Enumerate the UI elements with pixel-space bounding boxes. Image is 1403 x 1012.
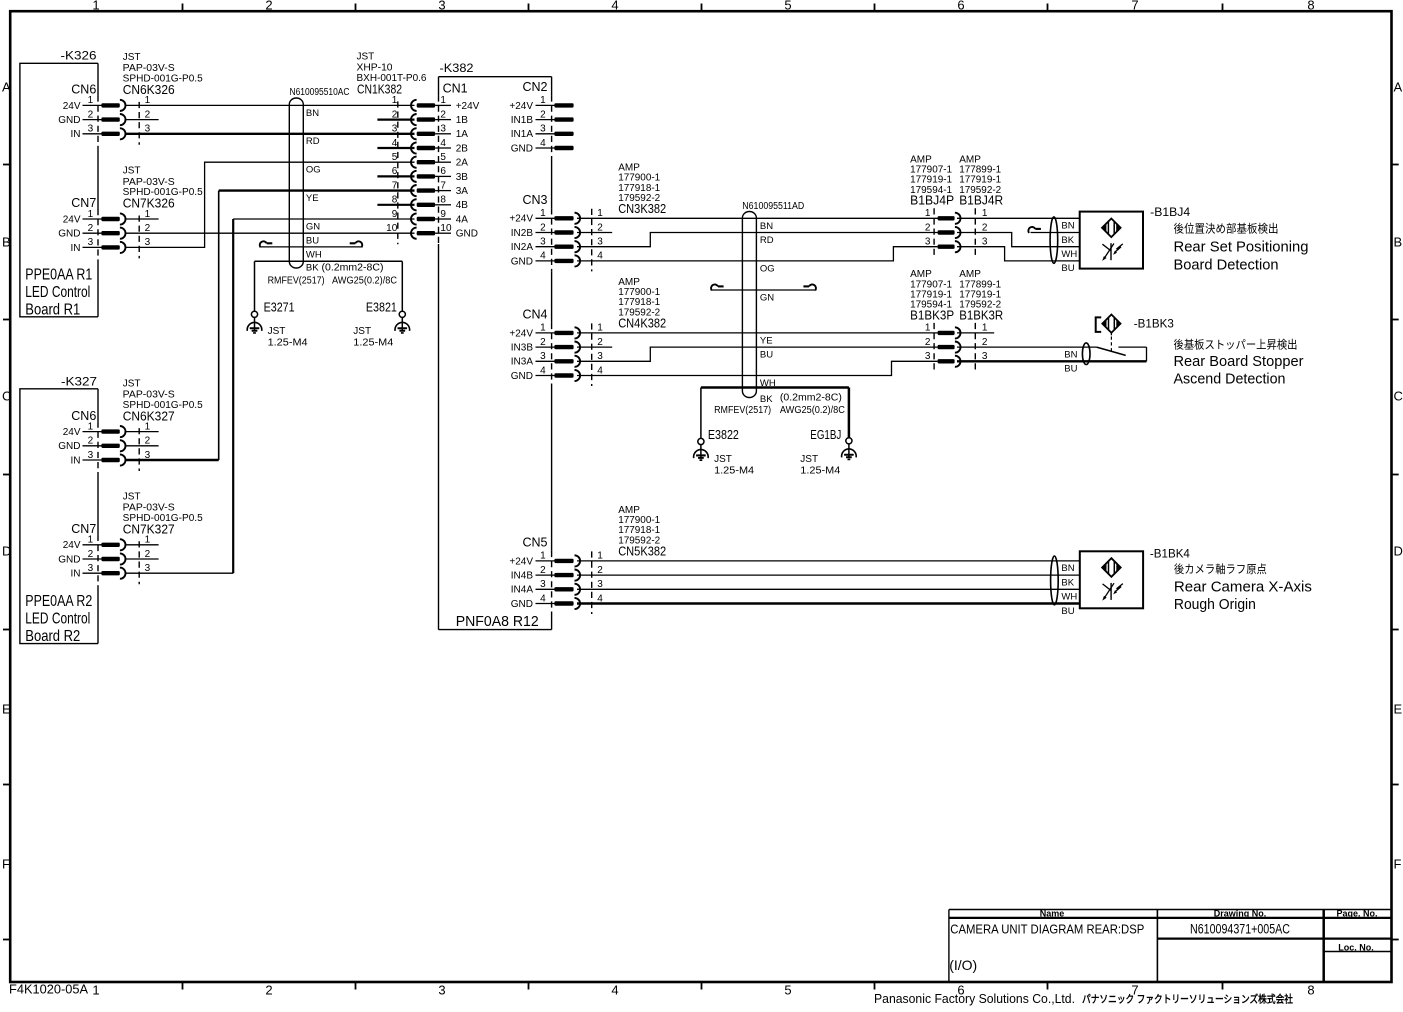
- cable N610095511AD: [742, 212, 756, 398]
- svg-text:-B1BJ4: -B1BJ4: [1150, 205, 1190, 219]
- svg-text:JST: JST: [123, 378, 141, 389]
- svg-text:(I/O): (I/O): [949, 957, 977, 973]
- cable oval at sensor B1BK4: [1051, 556, 1059, 605]
- svg-text:2: 2: [597, 222, 603, 233]
- svg-text:Board R1: Board R1: [25, 301, 80, 318]
- svg-text:CN1K382: CN1K382: [357, 83, 402, 97]
- svg-text:1.25-M4: 1.25-M4: [800, 466, 840, 477]
- svg-text:B1BJ4R: B1BJ4R: [959, 194, 1003, 208]
- svg-text:3: 3: [540, 579, 546, 590]
- svg-text:8: 8: [1307, 0, 1314, 13]
- svg-text:PNF0A8 R12: PNF0A8 R12: [456, 614, 539, 630]
- svg-text:4: 4: [597, 251, 603, 262]
- svg-text:1: 1: [982, 208, 988, 219]
- svg-text:3: 3: [925, 351, 931, 362]
- svg-text:24V: 24V: [63, 540, 81, 551]
- svg-text:4: 4: [540, 251, 546, 262]
- wire CN6K327-3 to CN1-7 (3A): [126, 459, 219, 461]
- svg-text:1: 1: [88, 209, 94, 220]
- svg-text:C: C: [1394, 389, 1403, 404]
- svg-text:2: 2: [982, 222, 988, 233]
- svg-text:Loc. No.: Loc. No.: [1338, 942, 1374, 952]
- svg-text:3: 3: [982, 237, 988, 248]
- svg-text:+24V: +24V: [456, 101, 480, 112]
- svg-text:-B1BK4: -B1BK4: [1150, 546, 1190, 560]
- svg-text:2: 2: [925, 222, 931, 233]
- stub CN1-2 (1B): [377, 118, 414, 120]
- svg-text:後位置決め部基板検出: 後位置決め部基板検出: [1174, 222, 1279, 236]
- svg-text:後基板ストッパー上昇検出: 後基板ストッパー上昇検出: [1174, 337, 1298, 351]
- svg-text:CN2: CN2: [522, 80, 547, 94]
- wire CN3-4 to B1BJ4P-3 (GND): [577, 247, 938, 261]
- svg-text:4: 4: [440, 138, 446, 149]
- svg-text:3: 3: [597, 579, 603, 590]
- svg-text:1: 1: [925, 323, 931, 334]
- svg-text:RD: RD: [760, 235, 774, 246]
- svg-text:1: 1: [540, 95, 546, 106]
- svg-text:2: 2: [540, 565, 546, 576]
- wire CN7K327-3 to CN1-9 (4A): [126, 572, 234, 574]
- svg-text:B: B: [2, 235, 11, 250]
- svg-text:IN: IN: [71, 129, 81, 140]
- svg-text:3: 3: [438, 0, 445, 13]
- svg-text:2: 2: [982, 337, 988, 348]
- shield wire BK to grounds (cable 2): [701, 386, 849, 389]
- svg-text:GND: GND: [456, 229, 478, 240]
- svg-text:GND: GND: [58, 554, 80, 565]
- svg-text:JST: JST: [268, 326, 286, 337]
- svg-text:2: 2: [540, 109, 546, 120]
- svg-text:1.25-M4: 1.25-M4: [268, 338, 308, 349]
- svg-text:CN3K382: CN3K382: [618, 202, 666, 216]
- svg-text:2: 2: [145, 109, 151, 120]
- svg-text:A: A: [2, 80, 11, 95]
- svg-text:2: 2: [265, 0, 272, 13]
- svg-text:2B: 2B: [456, 143, 469, 154]
- svg-text:GND: GND: [511, 371, 533, 382]
- svg-text:2: 2: [145, 436, 151, 447]
- svg-text:4: 4: [597, 365, 603, 376]
- svg-text:BN: BN: [1064, 349, 1077, 360]
- wires CN5 to sensor B1BK4: [577, 560, 1080, 562]
- wire CN7K327-1 stub: [126, 544, 159, 546]
- wire CN6K326-3 to CN1-3 (1A): [126, 133, 415, 135]
- svg-text:6: 6: [957, 0, 964, 13]
- cable oval at sensor B1BJ4: [1050, 217, 1058, 263]
- svg-text:1: 1: [392, 95, 398, 106]
- wire CN3-3 to B1BJ4P-2: [577, 233, 938, 247]
- svg-text:CN1: CN1: [443, 82, 468, 96]
- svg-text:E3271: E3271: [264, 300, 295, 314]
- svg-text:10: 10: [386, 223, 398, 234]
- wire CN7K326-1 stub: [126, 218, 159, 220]
- svg-text:-K382: -K382: [440, 61, 474, 75]
- svg-text:+24V: +24V: [509, 101, 533, 112]
- title block: [949, 909, 1392, 911]
- svg-text:IN: IN: [71, 569, 81, 580]
- svg-text:CN3: CN3: [522, 193, 547, 207]
- svg-text:AWG25(0.2)/8C: AWG25(0.2)/8C: [780, 405, 845, 416]
- svg-text:4: 4: [540, 138, 546, 149]
- svg-text:5: 5: [784, 0, 791, 13]
- svg-text:CN7K326: CN7K326: [123, 197, 175, 211]
- photoelectric sensor B1BJ4: [1080, 212, 1143, 269]
- svg-text:LED Control: LED Control: [25, 611, 90, 628]
- svg-text:-K326: -K326: [61, 49, 97, 63]
- svg-text:2: 2: [540, 337, 546, 348]
- svg-text:IN: IN: [71, 455, 81, 466]
- svg-text:BU: BU: [1061, 606, 1074, 617]
- svg-text:Ascend Detection: Ascend Detection: [1174, 371, 1286, 388]
- svg-text:2: 2: [145, 223, 151, 234]
- svg-text:GN: GN: [760, 293, 774, 304]
- shield wire BK to grounds (cable 1): [255, 260, 403, 262]
- svg-text:BU: BU: [1061, 263, 1074, 274]
- svg-text:1: 1: [597, 208, 603, 219]
- svg-text:-B1BK3: -B1BK3: [1134, 317, 1174, 331]
- svg-text:JST: JST: [800, 454, 818, 465]
- svg-text:2: 2: [265, 983, 272, 998]
- svg-text:CN4: CN4: [522, 308, 547, 322]
- svg-text:F: F: [2, 857, 10, 872]
- svg-text:4B: 4B: [456, 200, 469, 211]
- svg-text:2: 2: [440, 109, 446, 120]
- sensor BK stub with hook: [1031, 232, 1080, 234]
- svg-text:OG: OG: [760, 264, 775, 275]
- svg-text:パナソニック ファクトリーソリューションズ株式会社: パナソニック ファクトリーソリューションズ株式会社: [1082, 993, 1293, 1006]
- svg-text:BN: BN: [306, 108, 319, 119]
- svg-text:BN: BN: [760, 221, 773, 232]
- svg-text:1: 1: [88, 535, 94, 546]
- svg-text:D: D: [2, 544, 11, 559]
- svg-text:RD: RD: [306, 136, 320, 147]
- svg-text:RMFEV(2517): RMFEV(2517): [714, 405, 771, 416]
- svg-text:BN: BN: [1061, 221, 1074, 232]
- svg-text:CN5K382: CN5K382: [618, 544, 666, 558]
- svg-text:IN4A: IN4A: [511, 585, 534, 596]
- wire CN7K327-2 stub: [126, 558, 159, 560]
- svg-text:1A: 1A: [456, 129, 469, 140]
- svg-text:JST: JST: [357, 52, 375, 63]
- svg-text:AWG25(0.2)/8C: AWG25(0.2)/8C: [332, 275, 397, 286]
- wire CN7K326-2 to CN1-10 (GND): [126, 232, 415, 234]
- svg-text:Board Detection: Board Detection: [1174, 256, 1279, 273]
- svg-text:Rough Origin: Rough Origin: [1174, 596, 1256, 613]
- svg-text:WH: WH: [306, 249, 322, 260]
- svg-text:+24V: +24V: [509, 214, 533, 225]
- cable N610095510AC: [289, 98, 303, 268]
- svg-text:B1BJ4P: B1BJ4P: [910, 194, 954, 208]
- svg-text:24V: 24V: [63, 214, 81, 225]
- svg-text:GND: GND: [58, 115, 80, 126]
- wire B1BK3R-2 (BN) to switch: [957, 346, 1097, 348]
- svg-text:WH: WH: [1061, 249, 1077, 260]
- svg-text:JST: JST: [353, 326, 371, 337]
- svg-text:BU: BU: [760, 350, 773, 361]
- wire CN3-2 stub: [577, 232, 612, 234]
- svg-text:BU: BU: [306, 236, 319, 247]
- svg-text:2: 2: [88, 109, 94, 120]
- svg-text:JST: JST: [123, 491, 141, 502]
- wire CN4-1 to B1BK3P-1 (+24V): [577, 332, 938, 334]
- wire CN7K326-3 to CN1-5 (2A): [126, 162, 415, 247]
- svg-text:GND: GND: [58, 229, 80, 240]
- svg-text:2: 2: [145, 549, 151, 560]
- svg-text:EG1BJ: EG1BJ: [810, 428, 841, 442]
- svg-text:2A: 2A: [456, 158, 469, 169]
- cut wires hook (cable 2): [712, 289, 816, 291]
- svg-text:8: 8: [1307, 983, 1314, 998]
- svg-text:YE: YE: [760, 336, 773, 347]
- svg-text:1: 1: [540, 551, 546, 562]
- svg-text:1B: 1B: [456, 115, 469, 126]
- ground E3822: [700, 388, 702, 439]
- svg-text:PPE0AA R2: PPE0AA R2: [25, 593, 92, 610]
- svg-text:5: 5: [440, 152, 446, 163]
- svg-text:3: 3: [925, 237, 931, 248]
- svg-text:2: 2: [597, 337, 603, 348]
- svg-text:CN6K327: CN6K327: [123, 409, 175, 423]
- stub CN1-4 (2B): [377, 147, 414, 149]
- svg-text:BU: BU: [1064, 364, 1077, 375]
- svg-text:YE: YE: [306, 193, 319, 204]
- svg-text:9: 9: [392, 209, 398, 220]
- cut wires hook (cable 1): [260, 246, 362, 248]
- svg-text:CAMERA UNIT DIAGRAM REAR:DSP: CAMERA UNIT DIAGRAM REAR:DSP: [950, 922, 1144, 937]
- svg-text:JST: JST: [714, 454, 732, 465]
- svg-text:4: 4: [540, 593, 546, 604]
- svg-text:4A: 4A: [456, 214, 469, 225]
- svg-text:10: 10: [440, 223, 452, 234]
- svg-text:1: 1: [88, 421, 94, 432]
- svg-text:1: 1: [597, 323, 603, 334]
- wire CN4-2 stub: [577, 346, 612, 348]
- wire B1BK3R-3 (BU) to switch: [957, 360, 1147, 362]
- svg-text:3: 3: [438, 983, 445, 998]
- svg-text:24V: 24V: [63, 427, 81, 438]
- svg-text:BK: BK: [1061, 235, 1074, 246]
- svg-text:8: 8: [440, 195, 446, 206]
- svg-text:3: 3: [597, 351, 603, 362]
- svg-text:2: 2: [597, 565, 603, 576]
- svg-text:2: 2: [88, 223, 94, 234]
- svg-text:E: E: [2, 702, 11, 717]
- svg-text:Drawing No.: Drawing No.: [1214, 909, 1267, 919]
- wire CN6K327-1 stub: [126, 431, 159, 433]
- svg-text:D: D: [1394, 544, 1403, 559]
- svg-text:5: 5: [784, 983, 791, 998]
- svg-text:3: 3: [540, 351, 546, 362]
- svg-text:4: 4: [540, 365, 546, 376]
- svg-text:1: 1: [440, 95, 446, 106]
- svg-text:9: 9: [440, 209, 446, 220]
- svg-text:1: 1: [540, 208, 546, 219]
- svg-text:3: 3: [440, 124, 446, 135]
- svg-text:1: 1: [92, 0, 99, 13]
- svg-text:N610095511AD: N610095511AD: [742, 201, 804, 212]
- svg-text:4: 4: [611, 983, 618, 998]
- svg-text:6: 6: [440, 166, 446, 177]
- svg-text:(0.2mm2-8C): (0.2mm2-8C): [780, 392, 842, 403]
- svg-text:後カメラ軸ラフ原点: 後カメラ軸ラフ原点: [1174, 562, 1267, 576]
- svg-text:Panasonic Factory Solutions Co: Panasonic Factory Solutions Co.,Ltd.: [874, 991, 1075, 1006]
- svg-text:BK: BK: [1061, 577, 1074, 588]
- svg-text:Board R2: Board R2: [25, 628, 80, 645]
- wire CN4-4 to B1BK3P-3 (GND): [577, 361, 938, 375]
- svg-text:BK: BK: [760, 394, 773, 405]
- svg-text:GN: GN: [306, 221, 320, 232]
- svg-text:2: 2: [925, 337, 931, 348]
- cable oval at sensor B1BK3: [1082, 343, 1090, 365]
- svg-text:LED Control: LED Control: [25, 284, 90, 301]
- svg-text:3: 3: [145, 563, 151, 574]
- svg-text:3: 3: [540, 124, 546, 135]
- ground E3271: [254, 261, 256, 311]
- svg-text:+24V: +24V: [509, 328, 533, 339]
- svg-text:GND: GND: [511, 256, 533, 267]
- svg-text:IN1A: IN1A: [511, 129, 534, 140]
- svg-text:1: 1: [92, 983, 99, 998]
- svg-text:1: 1: [925, 208, 931, 219]
- svg-text:GND: GND: [511, 599, 533, 610]
- svg-text:+24V: +24V: [509, 556, 533, 567]
- svg-text:IN2B: IN2B: [511, 228, 534, 239]
- wires B1BJ4R to sensor: [957, 217, 1080, 219]
- svg-text:3B: 3B: [456, 172, 469, 183]
- svg-text:JST: JST: [123, 166, 141, 177]
- wire CN3-1 to B1BJ4P-1 (+24V): [577, 217, 938, 219]
- svg-text:B: B: [1394, 235, 1403, 250]
- svg-text:3: 3: [540, 237, 546, 248]
- svg-text:OG: OG: [306, 164, 321, 175]
- svg-text:Page. No.: Page. No.: [1336, 909, 1377, 919]
- svg-text:WH: WH: [1061, 592, 1077, 603]
- svg-text:F: F: [1394, 857, 1402, 872]
- photoelectric sensor B1BK4: [1080, 551, 1143, 608]
- svg-text:B1BK3P: B1BK3P: [910, 308, 954, 322]
- svg-text:CN7K327: CN7K327: [123, 522, 175, 536]
- svg-text:3: 3: [88, 450, 94, 461]
- svg-text:3: 3: [145, 237, 151, 248]
- wire CN4-3 to B1BK3P-2: [577, 347, 938, 361]
- svg-text:A: A: [1394, 80, 1403, 95]
- svg-text:IN4B: IN4B: [511, 571, 534, 582]
- svg-text:F4K1020-05A: F4K1020-05A: [9, 983, 89, 997]
- svg-text:IN: IN: [71, 243, 81, 254]
- svg-text:N610094371+005AC: N610094371+005AC: [1190, 922, 1290, 937]
- svg-text:1: 1: [540, 323, 546, 334]
- svg-text:3: 3: [88, 124, 94, 135]
- proximity switch B1BK3: [1097, 347, 1126, 355]
- ground EG1BJ: [848, 388, 851, 438]
- svg-text:7: 7: [1131, 0, 1138, 13]
- svg-text:2: 2: [88, 549, 94, 560]
- svg-text:3: 3: [88, 563, 94, 574]
- svg-text:1: 1: [597, 551, 603, 562]
- svg-text:7: 7: [440, 180, 446, 191]
- wire CN6K327-2 stub: [126, 445, 159, 447]
- svg-text:Rear Board Stopper: Rear Board Stopper: [1174, 353, 1304, 370]
- svg-text:-K327: -K327: [61, 374, 97, 388]
- svg-text:1: 1: [982, 323, 988, 334]
- ground E3821: [401, 261, 403, 311]
- svg-text:CN6K326: CN6K326: [123, 83, 175, 97]
- svg-text:1.25-M4: 1.25-M4: [714, 466, 754, 477]
- svg-text:1.25-M4: 1.25-M4: [353, 338, 393, 349]
- stub CN1-6 (3B): [377, 175, 414, 177]
- svg-text:CN5: CN5: [522, 536, 547, 550]
- svg-text:JST: JST: [123, 52, 141, 63]
- svg-text:GND: GND: [58, 441, 80, 452]
- svg-text:E3821: E3821: [366, 300, 397, 314]
- bracket of B1BK3 symbol: [1096, 317, 1102, 332]
- svg-text:BK: BK: [306, 262, 319, 273]
- svg-text:2: 2: [540, 222, 546, 233]
- svg-text:IN3A: IN3A: [511, 357, 534, 368]
- svg-text:2: 2: [88, 436, 94, 447]
- svg-text:B1BK3R: B1BK3R: [959, 308, 1003, 322]
- svg-text:(0.2mm2-8C): (0.2mm2-8C): [322, 262, 384, 273]
- svg-text:PPE0AA R1: PPE0AA R1: [25, 266, 92, 283]
- svg-text:C: C: [2, 389, 11, 404]
- svg-text:CN4K382: CN4K382: [618, 316, 666, 330]
- svg-text:3: 3: [597, 237, 603, 248]
- svg-text:24V: 24V: [63, 101, 81, 112]
- svg-text:RMFEV(2517): RMFEV(2517): [268, 275, 325, 286]
- svg-text:E3822: E3822: [708, 428, 739, 442]
- wire B1BK3R-1 stub: [957, 332, 994, 334]
- svg-text:1: 1: [88, 95, 94, 106]
- svg-text:3A: 3A: [456, 186, 469, 197]
- svg-text:N610095510AC: N610095510AC: [290, 87, 350, 98]
- stub CN1-8 (4B): [377, 204, 414, 206]
- svg-text:IN2A: IN2A: [511, 242, 534, 253]
- svg-text:BN: BN: [1061, 563, 1074, 574]
- svg-text:GND: GND: [511, 143, 533, 154]
- svg-text:IN3B: IN3B: [511, 343, 534, 354]
- wire CN6K326-1 to CN1-1 (+24V): [126, 104, 415, 106]
- svg-text:4: 4: [611, 0, 618, 13]
- svg-text:Rear Camera X-Axis: Rear Camera X-Axis: [1174, 579, 1312, 596]
- wire CN6K326-2 stub: [126, 119, 159, 121]
- svg-text:5: 5: [392, 152, 398, 163]
- svg-text:Name: Name: [1040, 909, 1065, 919]
- svg-text:Rear Set Positioning: Rear Set Positioning: [1174, 239, 1309, 256]
- svg-text:3: 3: [88, 237, 94, 248]
- svg-text:IN1B: IN1B: [511, 115, 534, 126]
- svg-text:E: E: [1394, 702, 1403, 717]
